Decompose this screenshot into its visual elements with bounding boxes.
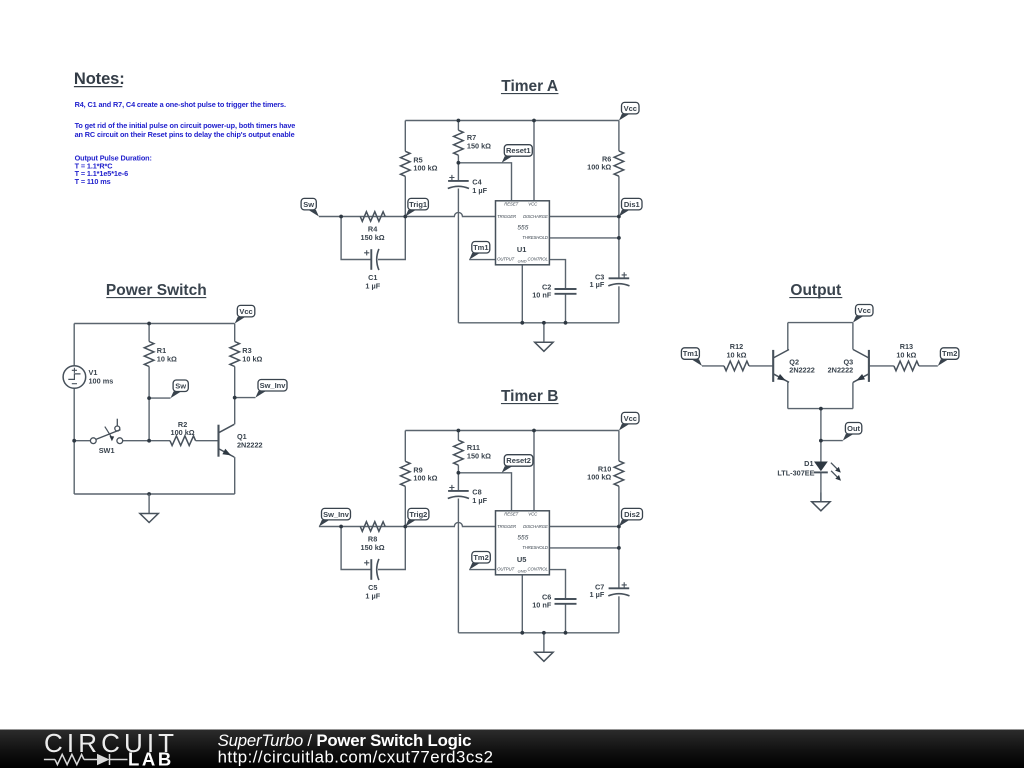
capacitor C8 1 &#181;F (polarized) <box>448 485 488 505</box>
resistor R7 150 k&#937; <box>454 130 492 155</box>
resistor R5 100 k&#937; <box>401 151 438 176</box>
wire: Q2 collector riser <box>787 323 789 350</box>
svg-text:1 µF: 1 µF <box>590 280 605 289</box>
svg-text:OUTPUT: OUTPUT <box>497 567 515 572</box>
svg-text:100 kΩ: 100 kΩ <box>413 474 437 483</box>
svg-text:http://circuitlab.com/cxut77er: http://circuitlab.com/cxut77erd3cs2 <box>218 747 494 766</box>
wire: R5 top lead <box>404 431 406 462</box>
node flag Dis2 <box>619 508 643 526</box>
junction: rail/GND pin <box>520 631 524 635</box>
wire: top Vcc rail (U1) <box>405 120 619 122</box>
svg-text:150 kΩ: 150 kΩ <box>467 142 491 151</box>
junction: Out node <box>819 439 823 443</box>
wire: trigger wire from input flag to TRIGGER pin (with hop) <box>319 212 496 216</box>
svg-text:THRESHOLD: THRESHOLD <box>522 545 548 550</box>
svg-text:GND: GND <box>518 258 527 263</box>
transistor Q1 2N2222 <box>219 424 263 457</box>
node flag Vcc <box>619 412 639 430</box>
section title Power Switch <box>106 282 207 299</box>
wire: bottom ground rail (power switch) <box>74 493 235 495</box>
svg-text:10 nF: 10 nF <box>532 291 552 300</box>
svg-text:Sw_Inv: Sw_Inv <box>260 381 287 390</box>
wire: C1 branch left leg <box>341 217 371 260</box>
svg-text:Sw: Sw <box>303 200 314 209</box>
svg-text:Vcc: Vcc <box>239 307 252 316</box>
resistor R12 10 k&#937; <box>724 342 749 371</box>
svg-text:10 kΩ: 10 kΩ <box>242 354 262 363</box>
node flag Tm2 <box>938 348 959 366</box>
wire: R6 top lead from Vcc rail <box>618 431 620 461</box>
wire: V1 bottom lead <box>73 388 75 494</box>
svg-text:150 kΩ: 150 kΩ <box>467 452 491 461</box>
svg-text:555: 555 <box>517 535 528 542</box>
svg-text:100 ms: 100 ms <box>89 376 114 385</box>
wire: R3 bottom through Sw_Inv node to Q1 collector <box>234 367 236 425</box>
resistor R8 150 k&#937; <box>360 522 385 552</box>
wire: R7 bottom lead to reset junction <box>457 155 459 163</box>
wire: R6 top lead from Vcc rail <box>618 121 620 151</box>
junction: rail/C2 <box>564 321 568 325</box>
svg-text:DISCHARGE: DISCHARGE <box>523 214 548 219</box>
wire: R2 to Q1 base <box>196 440 219 442</box>
wire: R6 bottom lead to Dis node <box>618 176 620 216</box>
svg-text:TRIGGER: TRIGGER <box>497 214 516 219</box>
node flag Reset2 <box>502 455 533 473</box>
resistor R3 10 k&#937; <box>230 342 263 367</box>
junction: left rail/SW1 wire <box>72 439 76 443</box>
ground <box>140 494 158 523</box>
wire: trigger wire from input flag to TRIGGER pin (with hop) <box>319 522 496 526</box>
junction: rail/C2 <box>564 631 568 635</box>
wire: C1 branch left leg <box>341 527 371 570</box>
svg-text:CONTROL: CONTROL <box>527 567 548 572</box>
svg-text:an RC circuit on their Reset p: an RC circuit on their Reset pins to del… <box>75 130 295 139</box>
svg-text:Reset1: Reset1 <box>506 146 531 155</box>
wire: LED cathode to ground <box>820 472 822 501</box>
wire: R1 top lead <box>148 324 150 342</box>
section title Output <box>789 282 842 299</box>
svg-text:555: 555 <box>517 225 528 232</box>
wire: Q3 emitter drop <box>852 382 854 408</box>
junction: reset branch <box>457 161 461 165</box>
node flag Trig2 <box>405 508 429 526</box>
wire: Q3 collector riser <box>852 323 854 350</box>
svg-text:150 kΩ: 150 kΩ <box>361 543 385 552</box>
svg-text:100 kΩ: 100 kΩ <box>171 428 195 437</box>
svg-text:VCC: VCC <box>528 512 538 517</box>
capacitor C6 10 nF <box>532 593 576 610</box>
wire: C2 bottom lead <box>565 604 567 633</box>
svg-text:RESET: RESET <box>504 201 518 206</box>
svg-text:150 kΩ: 150 kΩ <box>361 233 385 242</box>
wire: R5 top lead <box>404 121 406 152</box>
svg-text:Tm1: Tm1 <box>473 243 488 252</box>
wire: R7 top lead <box>457 431 459 441</box>
svg-text:LTL-307EE: LTL-307EE <box>777 469 814 478</box>
svg-text:Timer B: Timer B <box>501 388 558 405</box>
svg-text:Dis2: Dis2 <box>624 510 640 519</box>
capacitor C4 1 &#181;F (polarized) <box>448 175 488 195</box>
wire: power switch top Vcc rail <box>74 323 235 325</box>
junction: discharge node <box>617 525 621 529</box>
junction: threshold node <box>617 546 621 550</box>
wire: Q3 base to R13 <box>869 365 894 367</box>
svg-text:1 µF: 1 µF <box>590 590 605 599</box>
svg-text:2N2222: 2N2222 <box>789 366 815 375</box>
svg-text:10 kΩ: 10 kΩ <box>157 354 177 363</box>
svg-text:Notes:: Notes: <box>74 70 125 88</box>
wire: Q1 emitter drop <box>234 457 236 494</box>
svg-text:VCC: VCC <box>528 202 538 207</box>
svg-text:U5: U5 <box>517 555 527 564</box>
resistor R6 100 k&#937; <box>587 151 624 176</box>
junction: R1/SW1 wire <box>147 439 151 443</box>
junction: rail/R7 <box>457 429 461 433</box>
wire: reset junction down to C4 <box>457 473 459 491</box>
wire: C3 bottom lead to rail <box>618 596 620 633</box>
CircuitLab logo schematic squiggle <box>44 754 128 765</box>
junction: trigger/C1 left <box>339 525 343 529</box>
node flag Sw_Inv <box>255 380 287 398</box>
node flag Tm1 <box>469 242 490 260</box>
555 timer IC U5 <box>496 511 550 575</box>
capacitor C5 1 &#181;F (polarized) <box>364 559 381 600</box>
wire: reset junction down to C4 <box>457 163 459 181</box>
ground <box>535 633 553 662</box>
junction: rail/ground symbol <box>542 631 546 635</box>
junction: reset branch <box>457 471 461 475</box>
svg-text:DISCHARGE: DISCHARGE <box>523 524 548 529</box>
transistor Q3 2N2222 <box>828 350 869 383</box>
wire: C3 bottom lead to rail <box>618 286 620 323</box>
wire: Out node to LED anode <box>820 441 822 462</box>
svg-text:CONTROL: CONTROL <box>527 257 548 262</box>
junction: top rail/R1 <box>147 322 151 326</box>
wire: C1 branch right leg <box>378 527 405 570</box>
svg-text:Vcc: Vcc <box>624 414 637 423</box>
capacitor C2 10 nF <box>532 283 576 300</box>
junction: threshold node <box>617 236 621 240</box>
svg-text:Reset2: Reset2 <box>506 456 531 465</box>
svg-text:Trig2: Trig2 <box>409 510 427 519</box>
resistor R4 150 k&#937; <box>360 212 385 242</box>
junction: trigger/R5/C1 right <box>403 525 407 529</box>
svg-text:R13: R13 <box>900 342 913 351</box>
resistor R2 100 k&#937; <box>170 420 196 446</box>
wire: GND pin drop <box>521 265 523 323</box>
wire: emitter join rail <box>788 408 853 410</box>
svg-text:GND: GND <box>518 568 527 573</box>
wire: R7 bottom lead to reset junction <box>457 465 459 473</box>
svg-text:U1: U1 <box>517 245 527 254</box>
svg-text:LAB: LAB <box>128 748 174 768</box>
resistor R1 10 k&#937; <box>144 342 177 367</box>
section title Timer A <box>501 78 559 95</box>
node flag Sw <box>171 380 189 398</box>
node flag Sw_Inv <box>319 508 351 526</box>
svg-text:Tm2: Tm2 <box>473 553 488 562</box>
svg-text:R12: R12 <box>730 342 743 351</box>
555 timer IC U1 <box>496 201 550 265</box>
svg-text:Output: Output <box>790 282 841 299</box>
wire: GND pin drop <box>521 575 523 633</box>
capacitor C3 1 &#181;F (polarized) <box>590 272 630 289</box>
wire: THRESHOLD pin to vertical <box>549 547 619 549</box>
svg-text:Sw: Sw <box>175 381 186 390</box>
node flag Tm1 <box>681 348 702 366</box>
svg-text:Tm1: Tm1 <box>683 349 698 358</box>
wire: SW1 to R2 <box>123 440 170 442</box>
wire: VCC pin drop from rail <box>533 121 535 201</box>
resistor R9 100 k&#937; <box>401 461 438 486</box>
wire: left rail to SW1 <box>74 440 90 442</box>
svg-text:1 µF: 1 µF <box>365 281 380 290</box>
svg-text:1 µF: 1 µF <box>472 186 487 195</box>
wire: V1 top lead <box>73 324 75 366</box>
svg-text:Vcc: Vcc <box>624 104 637 113</box>
wire: reset junction to RESET pin <box>458 473 511 511</box>
svg-text:R4, C1 and R7, C4 create a one: R4, C1 and R7, C4 create a one-shot puls… <box>75 100 286 109</box>
svg-text:D1: D1 <box>804 459 813 468</box>
wire: join to Out node <box>820 409 822 441</box>
svg-text:Tm2: Tm2 <box>942 349 957 358</box>
wire: Sw flag stub <box>149 397 170 399</box>
wire: VCC pin drop from rail <box>533 431 535 511</box>
wire: R12 to Q2 base <box>749 365 773 367</box>
svg-text:T = 110 ms: T = 110 ms <box>75 177 111 186</box>
svg-text:RESET: RESET <box>504 511 518 516</box>
LED D1 LTL-307EE <box>777 459 841 481</box>
node flag Vcc <box>853 305 873 323</box>
switch SW1 (SPDT) <box>90 419 122 456</box>
junction: emitter rail/out <box>819 407 823 411</box>
svg-text:Timer A: Timer A <box>501 78 558 95</box>
junction: bottom rail/ground <box>147 492 151 496</box>
CircuitLab logo text <box>44 728 178 768</box>
svg-text:Sw_Inv: Sw_Inv <box>323 510 350 519</box>
wire: OUTPUT pin to Tm flag <box>469 259 495 261</box>
svg-text:100 kΩ: 100 kΩ <box>587 473 611 482</box>
svg-text:Vcc: Vcc <box>858 306 871 315</box>
svg-text:Trig1: Trig1 <box>409 200 427 209</box>
wire: Tm1 to R12 <box>702 365 724 367</box>
wire: Sw_Inv flag stub <box>235 397 256 399</box>
svg-text:To get rid of the initial puls: To get rid of the initial pulse on circu… <box>75 121 296 130</box>
wire: bottom ground rail <box>458 322 619 324</box>
section title Timer B <box>501 388 559 405</box>
node flag Vcc <box>619 102 639 120</box>
junction: trigger/R5/C1 right <box>403 215 407 219</box>
node flag Dis1 <box>619 198 642 216</box>
node flag Sw <box>301 198 319 216</box>
wire: top Vcc rail (U5) <box>405 430 619 432</box>
svg-text:THRESHOLD: THRESHOLD <box>522 235 548 240</box>
junction: trigger/C1 left <box>339 215 343 219</box>
svg-text:1 µF: 1 µF <box>472 496 487 505</box>
svg-text:10 nF: 10 nF <box>532 601 552 610</box>
wire: OUTPUT pin to Tm flag <box>469 569 495 571</box>
svg-text:TRIGGER: TRIGGER <box>497 524 516 529</box>
ground <box>535 323 553 352</box>
wire: R1 bottom to SW1 wire (through Sw node) <box>148 367 150 441</box>
svg-text:OUTPUT: OUTPUT <box>497 257 515 262</box>
svg-text:Dis1: Dis1 <box>624 200 640 209</box>
svg-text:SW1: SW1 <box>99 446 115 455</box>
junction: rail/GND pin <box>520 321 524 325</box>
node flag Reset1 <box>502 145 533 163</box>
svg-text:Out: Out <box>847 424 860 433</box>
transistor Q2 2N2222 <box>773 350 815 383</box>
wire: C1 branch right leg <box>378 217 405 260</box>
junction: Sw_Inv node <box>233 396 237 400</box>
junction: rail/VCC pin <box>532 119 536 123</box>
resistor R13 10 k&#937; <box>894 342 919 371</box>
svg-text:2N2222: 2N2222 <box>828 366 854 375</box>
junction: rail/VCC pin <box>532 429 536 433</box>
junction: rail/R7 <box>457 119 461 123</box>
node flag Tm2 <box>469 552 490 570</box>
svg-text:100 kΩ: 100 kΩ <box>587 163 611 172</box>
voltage source V1 (100 ms step) <box>63 366 113 389</box>
ground <box>812 493 830 511</box>
wire: Q2 emitter drop <box>787 382 789 408</box>
wire: reset junction to RESET pin <box>458 163 511 201</box>
wire: DISCHARGE pin to Dis node <box>549 526 619 528</box>
wire: R7 top lead <box>457 121 459 131</box>
junction: discharge node <box>617 215 621 219</box>
wire: Dis node down to C3 <box>618 217 620 279</box>
resistor R10 100 k&#937; <box>587 461 624 486</box>
node flag Trig1 <box>405 198 428 216</box>
wire: C4 bottom lead down to bottom rail (hops trigger wire) <box>457 189 459 323</box>
wire: output top Vcc rail <box>788 322 853 324</box>
wire: R13 to Tm2 <box>919 365 938 367</box>
wire: R6 bottom lead to Dis node <box>618 486 620 526</box>
resistor R11 150 k&#937; <box>454 440 492 465</box>
node flag Out <box>843 423 862 441</box>
capacitor C7 1 &#181;F (polarized) <box>590 582 630 599</box>
capacitor C1 1 &#181;F (polarized) <box>364 249 381 290</box>
wire: bottom ground rail <box>458 632 619 634</box>
wire: R5 bottom lead to trigger node <box>404 486 406 526</box>
wire: C4 bottom lead down to bottom rail (hops trigger wire) <box>457 499 459 633</box>
svg-text:Power Switch: Power Switch <box>106 282 207 299</box>
svg-text:2N2222: 2N2222 <box>237 440 263 449</box>
svg-text:100 kΩ: 100 kΩ <box>413 164 437 173</box>
junction: rail/ground symbol <box>542 321 546 325</box>
node flag Vcc <box>235 305 255 323</box>
svg-text:10 kΩ: 10 kΩ <box>896 351 916 360</box>
wire: DISCHARGE pin to Dis node <box>549 216 619 218</box>
wire: CONTROL pin to C2 <box>549 570 565 599</box>
wire: THRESHOLD pin to vertical <box>549 237 619 239</box>
junction: Sw node <box>147 396 151 400</box>
wire: Out flag stub <box>821 440 843 442</box>
svg-text:1 µF: 1 µF <box>365 591 380 600</box>
wire: C2 bottom lead <box>565 294 567 323</box>
svg-text:10 kΩ: 10 kΩ <box>726 351 746 360</box>
wire: CONTROL pin to C2 <box>549 260 565 289</box>
wire: R5 bottom lead to trigger node <box>404 176 406 216</box>
wire: R3 top lead <box>234 324 236 342</box>
wire: Dis node down to C3 <box>618 527 620 589</box>
